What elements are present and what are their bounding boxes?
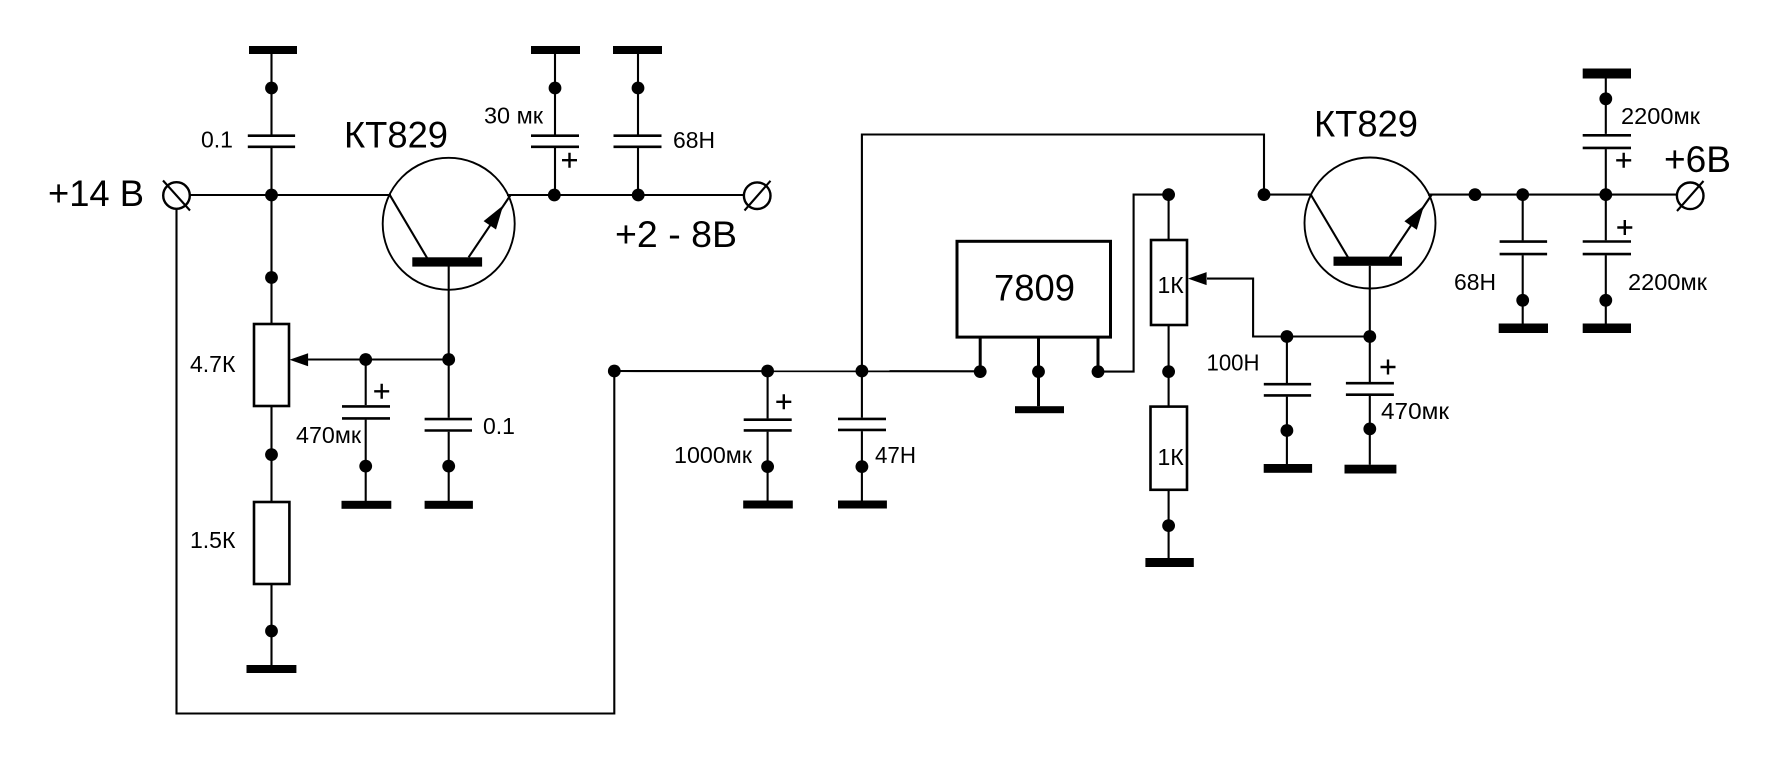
capacitor 0.1 bias [425,419,472,430]
plus sign 1000мк [776,394,791,409]
plus sign 470мк right [1381,360,1396,375]
node 0.1 bottom [442,460,455,473]
capacitor C1 0.1 [248,136,295,147]
plus sign 2200мк bottom [1617,220,1632,235]
wire 1000мк top [767,371,769,418]
ground below 100Н [1264,464,1312,473]
node 1.5K bottom [265,625,278,638]
node between pot and 1.5K [265,448,278,461]
node pin3 [1092,365,1105,378]
svg-text:30 мк: 30 мк [484,103,544,129]
node after Q2 [1469,188,1482,201]
wire 1000мк bottom [767,432,769,501]
regulator 7809 box [957,241,1111,337]
node 470мк right bottom [1363,423,1376,436]
svg-text:+6В: +6В [1664,139,1731,180]
plus sign 2200мк top [1616,153,1631,168]
wire 100Н top [1286,337,1288,384]
input terminal +14V [163,181,190,211]
wire 470мк right bottom [1369,396,1371,465]
wire 1K lower to ground [1168,490,1170,558]
wire rail up and over to Q2 base [862,135,1264,372]
transistor Q1 KT829 [383,158,515,290]
wire 68Н right top [1522,195,1524,241]
wire Q1 output [507,194,744,196]
node between 1K [1162,365,1175,378]
wire 47Н bottom [861,431,863,501]
ground below 470мк [342,501,392,509]
wire 2200мк bottom top [1605,195,1607,241]
node Q2 base junction [1258,188,1271,201]
wire 2200мк top to output [1605,149,1607,195]
svg-text:2200мк: 2200мк [1628,269,1708,295]
capacitor 2200мк bottom [1583,242,1631,255]
node 1000мк bottom [761,460,774,473]
capacitor 1000мк [744,420,792,431]
ground top-left [249,46,297,54]
plus sign 470мк [374,384,389,399]
node 2200мк bottom [1599,294,1612,307]
ground below 0.1 [425,501,473,509]
ground below 470мк right [1345,465,1397,474]
capacitor 2200мк top [1583,135,1631,148]
node pin2 [1032,365,1045,378]
node 68Н right bottom [1516,294,1529,307]
node Q1 emitter junction [442,353,455,366]
wire wiper to Q1 emitter [308,358,449,360]
capacitor 68Н left [614,136,662,147]
plus sign 30мк [562,153,577,168]
potentiometer 4.7K [254,324,289,406]
node pot top wire [265,271,278,284]
wire arrow to emitter junction [1207,279,1370,337]
node 68Н right top [1516,188,1529,201]
node C1 top [265,82,278,95]
wire C1 to base wire [270,148,272,325]
svg-text:0.1: 0.1 [483,413,515,439]
wire input to Q1 base [190,194,391,196]
wire 100Н bottom [1286,397,1288,464]
svg-text:0.1: 0.1 [201,127,233,153]
svg-text:68Н: 68Н [673,127,715,153]
feedback loop wire left-bottom [177,209,615,714]
svg-text:100Н: 100Н [1207,350,1260,376]
ground below 7809 [1015,406,1064,413]
node 30мк output junction [548,189,561,202]
wire ground to 68Н cap [637,53,639,135]
node 2200мк junction [1599,188,1612,201]
node Q2 emitter junction [1363,330,1376,343]
node rail left end [608,365,621,378]
wire ground to C1 [270,53,272,135]
node 470мк bottom [359,460,372,473]
svg-text:470мк: 470мк [1381,398,1450,424]
node 47Н bottom [856,460,869,473]
node 100Н bottom [1281,424,1294,437]
svg-text:КТ829: КТ829 [344,115,448,156]
wire ground to 30мк cap [554,53,556,135]
capacitor 470мк right [1346,383,1394,395]
node pin1 [974,365,987,378]
wire top ground to 2200мк [1605,79,1607,134]
svg-text:1000мк: 1000мк [674,442,753,468]
resistor 1K lower [1151,407,1188,490]
ground below 2200мк [1583,324,1631,334]
wire 68Н right bottom [1522,255,1524,323]
ground above 30мк [531,46,580,54]
node 2200мк top [1599,92,1612,105]
wire Q1 emitter down [448,262,450,418]
node 100Н junction [1281,330,1294,343]
resistor 1.5K [254,502,289,584]
svg-text:1К: 1К [1158,444,1185,470]
node 68Н output junction [632,189,645,202]
ground top right [1583,69,1631,79]
svg-text:+2 - 8В: +2 - 8В [615,214,737,255]
capacitor 30 мк [531,136,579,147]
output terminal +2-8V [744,181,771,211]
svg-text:1.5К: 1.5К [190,527,236,553]
capacitor 470мк [342,406,390,418]
ground below 1.5K [247,665,297,673]
node 47Н top [856,365,869,378]
ground below 1000мк [743,501,793,509]
7809 pin 2 ground [1037,337,1040,406]
arrow into 1K [1188,272,1207,285]
node 470мк top [359,353,372,366]
wire 7809 output to 1K top [1098,195,1169,372]
wire 2200мк bottom to ground [1605,255,1607,323]
wire 30мк to output [554,148,556,195]
wire Q2 output [1428,194,1677,196]
wire pot to 1.5K [270,406,272,502]
svg-text:1К: 1К [1158,272,1185,298]
svg-text:4.7К: 4.7К [190,351,236,377]
wire 470мк top [365,360,367,406]
ground below 68Н right [1499,324,1548,334]
wire 47Н top [861,371,863,418]
capacitor 100Н [1264,384,1311,395]
node 68Н top [632,82,645,95]
ground below 47Н [838,501,887,509]
wire 1.5K to ground [270,584,272,665]
wire 470мк right top [1369,266,1371,382]
svg-text:+14 В: +14 В [48,173,144,214]
wire Q2 base [1264,194,1312,196]
node 1000мк top [761,365,774,378]
node base junction [265,189,278,202]
wire 68Н to output [637,148,639,195]
wire 470мк bottom [365,420,367,501]
capacitor 68Н right [1500,242,1548,255]
svg-text:2200мк: 2200мк [1621,103,1701,129]
ground above 68Н [613,46,662,54]
wire 0.1 bottom [448,432,450,501]
7809 pin 3 output [1097,337,1100,371]
ground below 1K [1145,558,1193,567]
transistor Q2 KT829 [1305,158,1436,289]
output terminal +6V [1677,181,1704,211]
wire 1K top [1168,195,1170,240]
7809 pin 1 input [979,337,982,371]
svg-text:7809: 7809 [994,268,1075,309]
node 1K bottom [1162,519,1175,532]
pot wiper arrow [290,353,309,366]
resistor 1K upper [1151,240,1187,325]
wire between 1K resistors [1168,325,1170,407]
node 1K top [1162,188,1175,201]
svg-text:68Н: 68Н [1454,269,1496,295]
node 30мк top [549,82,562,95]
svg-text:470мк: 470мк [296,422,362,448]
svg-text:КТ829: КТ829 [1314,104,1418,145]
capacitor 47Н [838,419,886,430]
svg-text:47Н: 47Н [875,442,916,468]
rail wire to 7809 [614,370,980,372]
